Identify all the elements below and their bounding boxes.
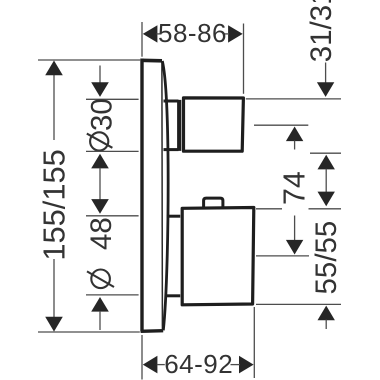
neck1 top line xyxy=(164,100,179,103)
dim 58-86 left extension xyxy=(141,22,143,57)
svg-text:74: 74 xyxy=(278,171,311,205)
dim dia48 extension top xyxy=(86,215,139,217)
dim 58-86 left arrow xyxy=(143,25,158,42)
dim dia30 extension top xyxy=(86,98,139,100)
svg-text:58-86: 58-86 xyxy=(158,18,227,48)
dim dia48 arrow down xyxy=(91,199,109,214)
dim 155/155 bottom extension line xyxy=(38,331,140,333)
dim 74 stem lower xyxy=(294,216,296,242)
dim dia30 extension bottom xyxy=(86,150,139,152)
dim 64-92 right tail xyxy=(231,364,241,366)
dim shared stem between dia30 and dia48 xyxy=(99,168,101,200)
dim 74 arrow down xyxy=(286,240,303,255)
dim 55/55 bottom extension xyxy=(256,303,341,305)
dim 74 top extension xyxy=(254,124,308,126)
knob1 body xyxy=(184,98,244,151)
dim 31/31 stem xyxy=(325,63,327,84)
dim dia30 arrow down xyxy=(91,82,109,97)
dim gap extension knob1 bottom xyxy=(310,152,341,154)
knob2 body xyxy=(182,208,254,305)
dim gap stem xyxy=(325,169,327,193)
svg-text:30: 30 xyxy=(85,98,118,131)
svg-text:155/155: 155/155 xyxy=(36,149,71,260)
neck1 bottom line xyxy=(164,148,179,151)
dim 58-86 left tail xyxy=(157,33,162,35)
plate top edge xyxy=(141,58,162,62)
dim dia30 label xyxy=(90,132,108,150)
dim 58-86 right arrow xyxy=(228,25,243,42)
dim 58-86 right extension xyxy=(243,24,245,94)
dim 64-92 left extension xyxy=(141,335,143,380)
neck2 top line xyxy=(167,215,180,218)
svg-text:64-92: 64-92 xyxy=(164,349,233,379)
plate bottom edge xyxy=(141,329,164,333)
dim 155/155 line upper segment xyxy=(53,62,55,140)
dim 64-92 right extension xyxy=(253,307,255,378)
dim dia30 arrow up xyxy=(91,154,109,169)
neck2 bottom line xyxy=(166,294,180,297)
dim 74 bottom extension xyxy=(256,255,309,257)
dim 64-92 left tail xyxy=(157,364,165,366)
neck1 right bar xyxy=(177,100,181,151)
plate front dome contour xyxy=(162,61,168,330)
dim 31/31 extension line xyxy=(246,98,341,100)
plate front face line xyxy=(161,62,164,330)
dim 155/155 arrow up xyxy=(45,61,63,76)
knob2 tab xyxy=(204,198,223,207)
dim dia48 extension bottom xyxy=(86,294,139,296)
dim gap arrow down xyxy=(318,192,335,207)
svg-text:48: 48 xyxy=(85,217,118,250)
dim 155/155 arrow down xyxy=(45,317,63,332)
svg-text:55/55: 55/55 xyxy=(310,221,343,295)
plate back edge xyxy=(140,59,143,332)
dim 74 arrow up xyxy=(286,127,303,142)
dim 64-92 right arrow xyxy=(239,356,254,374)
dim 155/155 top extension line xyxy=(38,59,140,61)
dim dia30 stem above xyxy=(99,66,101,84)
dim 55/55 arrow up xyxy=(318,306,335,321)
dim 31/31 arrow down xyxy=(317,82,334,97)
dim dia48 stem below xyxy=(99,311,101,330)
dim 55/55 stem below xyxy=(325,320,327,329)
dim gap arrow up xyxy=(318,155,335,170)
dim 55/55 top extension left segment xyxy=(256,208,282,210)
dim 64-92 left arrow xyxy=(143,356,158,374)
dim 74 stem upper xyxy=(294,141,296,150)
dim dia48 arrow up xyxy=(91,297,109,312)
dim 58-86 right tail xyxy=(225,33,230,35)
dim 155/155 line lower segment xyxy=(53,259,55,318)
dim dia48 label xyxy=(91,270,110,289)
svg-text:31/31: 31/31 xyxy=(305,0,338,62)
dim 55/55 top extension right segment xyxy=(309,208,342,210)
